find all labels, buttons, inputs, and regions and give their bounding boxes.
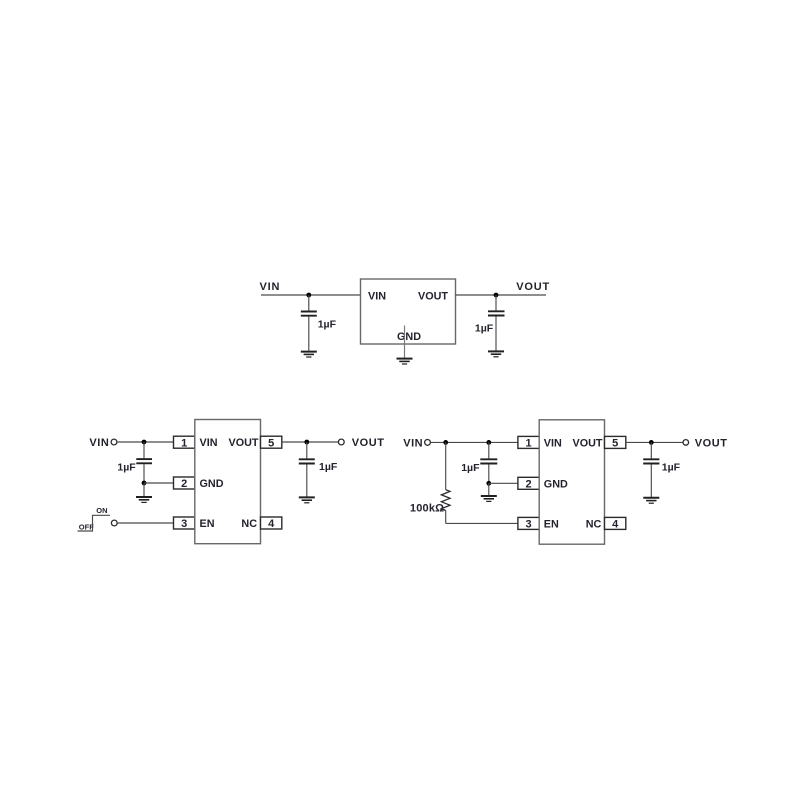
svg-text:1µF: 1µF bbox=[662, 462, 681, 474]
svg-text:VIN: VIN bbox=[368, 290, 386, 302]
svg-text:1: 1 bbox=[181, 437, 187, 449]
U3 pin label VOUT bbox=[573, 438, 603, 450]
node input junction bbox=[306, 293, 311, 298]
value label R1 100kΩ bbox=[410, 503, 444, 515]
svg-text:GND: GND bbox=[200, 478, 224, 490]
svg-text:100kΩ: 100kΩ bbox=[410, 503, 444, 515]
pin 1 box bbox=[518, 436, 539, 448]
capacitor C1 bbox=[301, 295, 317, 351]
U2 pin label NC bbox=[241, 518, 257, 530]
svg-text:4: 4 bbox=[268, 518, 275, 530]
node input junction bbox=[142, 440, 147, 445]
wire GND branch to pin2 bbox=[489, 482, 518, 484]
wire VIN to pin1 bbox=[117, 441, 174, 443]
pin 3 number bbox=[181, 518, 187, 530]
value label C2 1µF bbox=[475, 323, 494, 335]
node cap junction bbox=[486, 440, 491, 445]
svg-text:VIN: VIN bbox=[200, 437, 218, 449]
terminal VOUT bbox=[338, 439, 344, 445]
svg-text:VIN: VIN bbox=[89, 437, 109, 449]
pin 1 number bbox=[526, 438, 532, 450]
svg-text:VOUT: VOUT bbox=[352, 437, 385, 449]
value label C3 1µF bbox=[117, 462, 136, 474]
wire output bbox=[456, 294, 547, 296]
net label VOUT bbox=[352, 437, 385, 449]
resistor R1 100kΩ bbox=[441, 442, 450, 523]
pin 4 box bbox=[605, 517, 626, 529]
value label C1 1µF bbox=[318, 319, 337, 331]
net label VIN bbox=[260, 281, 281, 293]
regulator U3 body bbox=[539, 420, 604, 544]
ground (under C1) bbox=[301, 352, 317, 357]
wire GND pin stub bbox=[404, 326, 406, 359]
svg-text:VOUT: VOUT bbox=[229, 437, 259, 449]
capacitor C5 bbox=[480, 442, 497, 483]
ground (under C3) bbox=[136, 497, 152, 502]
U1 pin label VOUT bbox=[418, 290, 448, 302]
node output junction bbox=[649, 440, 654, 445]
U2 pin label VIN bbox=[200, 437, 218, 449]
net label VOUT bbox=[516, 281, 550, 293]
node GND junction bbox=[142, 481, 147, 486]
svg-text:5: 5 bbox=[268, 437, 274, 449]
value label C5 1µF bbox=[461, 462, 480, 474]
capacitor C4 bbox=[299, 442, 315, 497]
pin 1 number bbox=[181, 437, 187, 449]
svg-text:NC: NC bbox=[241, 518, 257, 530]
terminal VOUT bbox=[683, 440, 689, 446]
svg-text:2: 2 bbox=[526, 478, 532, 490]
ground (under C2) bbox=[488, 351, 504, 356]
switch ON/OFF step symbol bbox=[78, 515, 111, 531]
terminal VIN bbox=[425, 440, 431, 446]
svg-text:4: 4 bbox=[612, 519, 619, 531]
wire GND branch to pin2 bbox=[144, 482, 174, 484]
wire pin5 to VOUT terminal bbox=[282, 441, 339, 443]
node GND junction bbox=[486, 481, 491, 486]
pin 5 number bbox=[268, 437, 274, 449]
svg-text:1µF: 1µF bbox=[318, 319, 337, 331]
svg-text:NC: NC bbox=[586, 519, 602, 531]
svg-text:VOUT: VOUT bbox=[573, 438, 603, 450]
pin 3 box bbox=[518, 517, 539, 529]
ground (under C6) bbox=[643, 498, 659, 503]
node resistor junction bbox=[443, 440, 448, 445]
wire VIN to pin1 bbox=[431, 441, 518, 443]
capacitor C6 bbox=[643, 442, 659, 497]
svg-text:3: 3 bbox=[526, 519, 532, 531]
pin 1 box bbox=[174, 436, 195, 448]
svg-text:5: 5 bbox=[612, 438, 618, 450]
ground (under C4) bbox=[299, 497, 315, 502]
net label VIN bbox=[403, 437, 423, 449]
U3 pin label VIN bbox=[544, 438, 562, 450]
U3 pin label GND bbox=[544, 478, 568, 490]
terminal EN switch bbox=[111, 520, 117, 526]
svg-text:1µF: 1µF bbox=[461, 462, 480, 474]
svg-text:VOUT: VOUT bbox=[516, 281, 550, 293]
svg-text:EN: EN bbox=[200, 518, 215, 530]
pin 4 box bbox=[261, 517, 282, 529]
capacitor C3 bbox=[136, 442, 152, 483]
net label VIN bbox=[89, 437, 109, 449]
ground (U1 GND) bbox=[397, 359, 413, 364]
pin 3 number bbox=[526, 519, 532, 531]
U3 pin label NC bbox=[586, 519, 602, 531]
pin 2 number bbox=[181, 478, 187, 490]
svg-text:1µF: 1µF bbox=[319, 461, 338, 473]
svg-text:GND: GND bbox=[397, 331, 421, 343]
capacitor C2 bbox=[488, 295, 505, 351]
pin 2 number bbox=[526, 478, 532, 490]
svg-text:VOUT: VOUT bbox=[418, 290, 448, 302]
U2 pin label EN bbox=[200, 518, 215, 530]
svg-text:VOUT: VOUT bbox=[695, 437, 728, 449]
U1 pin label GND bbox=[397, 331, 421, 343]
svg-text:ON: ON bbox=[96, 506, 107, 515]
svg-text:VIN: VIN bbox=[403, 437, 423, 449]
pin 4 number bbox=[268, 518, 275, 530]
pin 5 box bbox=[605, 436, 626, 448]
regulator U1 body bbox=[361, 279, 456, 344]
wire cap to ground bbox=[143, 483, 145, 496]
svg-text:OFF: OFF bbox=[79, 523, 94, 532]
value label C6 1µF bbox=[662, 462, 681, 474]
U3 pin label EN bbox=[544, 519, 559, 531]
svg-text:VIN: VIN bbox=[260, 281, 281, 293]
U2 pin label GND bbox=[200, 478, 224, 490]
U1 pin label VIN bbox=[368, 290, 386, 302]
wire cap to ground bbox=[488, 483, 490, 495]
U2 pin label VOUT bbox=[229, 437, 259, 449]
pin 3 box bbox=[174, 517, 195, 529]
ground (under C5) bbox=[481, 496, 497, 501]
svg-text:EN: EN bbox=[544, 519, 559, 531]
svg-text:VIN: VIN bbox=[544, 438, 562, 450]
svg-text:1µF: 1µF bbox=[475, 323, 494, 335]
pin 2 box bbox=[174, 477, 195, 489]
pin 5 number bbox=[612, 438, 618, 450]
pin 2 box bbox=[518, 477, 539, 489]
svg-text:1: 1 bbox=[526, 438, 532, 450]
node output junction bbox=[304, 440, 309, 445]
pin 4 number bbox=[612, 519, 619, 531]
regulator U2 body bbox=[195, 420, 261, 544]
svg-text:GND: GND bbox=[544, 478, 568, 490]
svg-text:2: 2 bbox=[181, 478, 187, 490]
net label VOUT bbox=[695, 437, 728, 449]
wire pin5 to VOUT terminal bbox=[626, 441, 683, 443]
svg-text:3: 3 bbox=[181, 518, 187, 530]
value label C4 1µF bbox=[319, 461, 338, 473]
wire input bbox=[261, 294, 361, 296]
terminal VIN bbox=[111, 439, 117, 445]
wire resistor to pin3 bbox=[446, 522, 518, 524]
switch OFF label bbox=[79, 523, 94, 532]
svg-text:1µF: 1µF bbox=[117, 462, 136, 474]
pin 5 box bbox=[261, 436, 282, 448]
switch ON label bbox=[96, 506, 107, 515]
wire switch to pin3 bbox=[117, 522, 173, 524]
node output junction bbox=[494, 293, 499, 298]
